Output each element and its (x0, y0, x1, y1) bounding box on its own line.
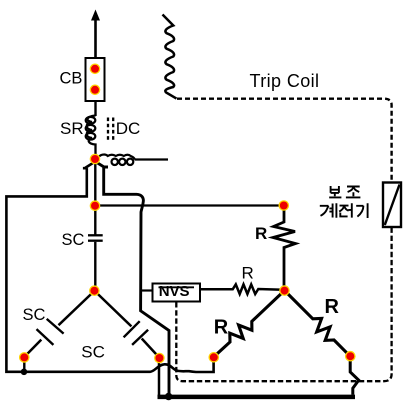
svg-text:NVS: NVS (159, 283, 190, 300)
svg-text:SC: SC (62, 231, 85, 249)
svg-text:SC: SC (23, 306, 46, 324)
svg-text:R: R (214, 316, 229, 338)
svg-text:R: R (325, 296, 340, 318)
svg-text:Trip Coil: Trip Coil (250, 71, 320, 91)
svg-text:CB: CB (60, 69, 83, 87)
svg-text:R: R (242, 264, 254, 283)
svg-text:SC: SC (81, 342, 105, 361)
svg-text:DC: DC (116, 119, 141, 138)
svg-text:SR: SR (60, 119, 84, 138)
svg-text:R: R (255, 224, 267, 243)
